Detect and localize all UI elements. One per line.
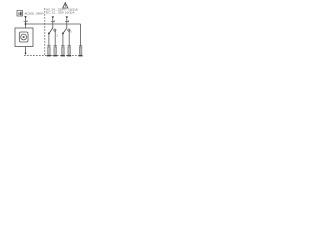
svg-text:AC100...240V~: AC100...240V~: [25, 11, 45, 15]
svg-text:1: 1: [54, 19, 56, 23]
svg-text:3: 3: [26, 19, 28, 23]
svg-text:DC 12...30V 10(2)A: DC 12...30V 10(2)A: [46, 11, 75, 15]
svg-text:2: 2: [57, 36, 59, 38]
svg-text:5: 5: [70, 32, 72, 34]
svg-text:4: 4: [68, 19, 70, 23]
